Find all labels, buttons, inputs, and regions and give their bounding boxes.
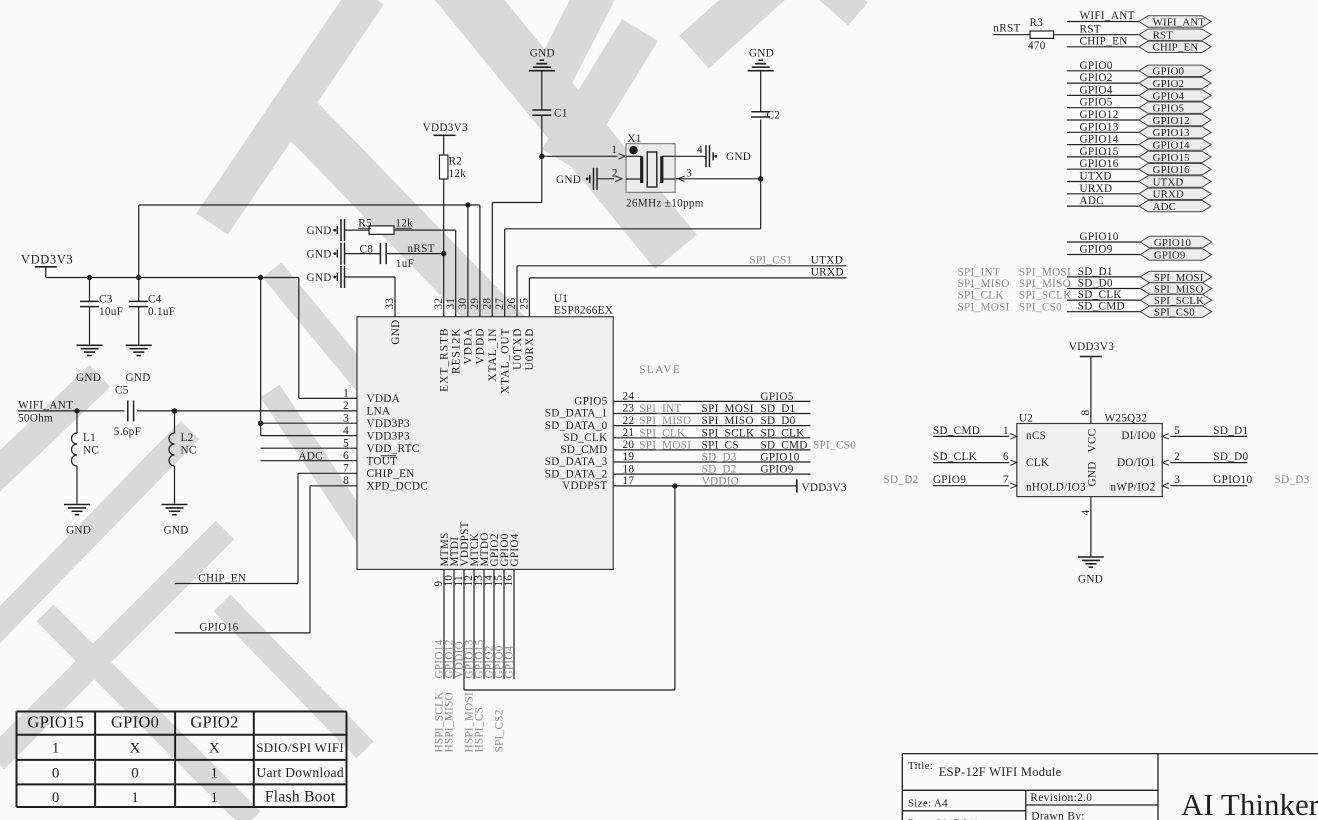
svg-text:WIFI_ANT: WIFI_ANT (18, 400, 73, 412)
svg-text:U2: U2 (1019, 413, 1033, 425)
svg-text:GND: GND (307, 272, 332, 284)
svg-text:GPIO15: GPIO15 (27, 713, 84, 732)
svg-text:GND: GND (390, 320, 402, 345)
svg-text:GPIO4: GPIO4 (1153, 90, 1185, 102)
svg-text:GPIO14: GPIO14 (1153, 140, 1191, 152)
svg-text:4: 4 (1080, 510, 1092, 516)
svg-text:2: 2 (1174, 451, 1180, 463)
svg-text:SPI_MISO: SPI_MISO (702, 415, 754, 427)
svg-text:SD_D0: SD_D0 (761, 415, 796, 427)
svg-text:XTAL_OUT: XTAL_OUT (500, 328, 512, 395)
svg-text:Drawn By:: Drawn By: (1031, 811, 1084, 820)
svg-text:R2: R2 (449, 156, 463, 168)
svg-text:1: 1 (52, 740, 60, 756)
svg-text:CHIP_EN: CHIP_EN (1153, 42, 1199, 54)
svg-text:VDD3V3: VDD3V3 (423, 122, 468, 134)
svg-text:SLAVE: SLAVE (639, 364, 681, 376)
svg-text:VDD3V3: VDD3V3 (1069, 341, 1114, 353)
svg-text:6: 6 (1003, 451, 1009, 463)
svg-text:X: X (209, 740, 220, 756)
svg-text:SD_D0: SD_D0 (1078, 278, 1113, 290)
svg-text:SPI_MOSI: SPI_MOSI (958, 301, 1010, 313)
svg-text:UTXD: UTXD (1153, 176, 1184, 188)
svg-text:RST: RST (1153, 30, 1174, 42)
svg-text:GPIO5: GPIO5 (1153, 103, 1185, 115)
svg-text:SPI_SCLK: SPI_SCLK (1154, 295, 1204, 307)
svg-text:26MHz ±10ppm: 26MHz ±10ppm (626, 198, 704, 210)
svg-text:GND: GND (164, 525, 189, 537)
svg-text:DO/IO1: DO/IO1 (1117, 457, 1155, 469)
svg-text:TOUT: TOUT (367, 456, 398, 468)
svg-text:VDD_RTC: VDD_RTC (367, 443, 420, 455)
svg-text:SD_D2: SD_D2 (702, 464, 737, 476)
svg-text:DI/IO0: DI/IO0 (1121, 430, 1155, 442)
svg-text:VCC: VCC (1087, 429, 1099, 453)
svg-text:SPI_SCLK: SPI_SCLK (1019, 290, 1072, 302)
svg-text:URXD: URXD (811, 267, 844, 279)
svg-text:XTAL_IN: XTAL_IN (487, 327, 499, 381)
svg-text:GPIO9: GPIO9 (933, 474, 966, 486)
svg-text:GPIO2: GPIO2 (1080, 72, 1113, 84)
svg-text:Uart Download: Uart Download (256, 765, 344, 780)
svg-text:1: 1 (211, 765, 219, 781)
svg-text:Title:: Title: (908, 760, 933, 772)
svg-text:GPIO16: GPIO16 (1153, 164, 1191, 176)
svg-text:GPIO5: GPIO5 (1080, 97, 1113, 109)
svg-text:SD_CMD: SD_CMD (933, 425, 980, 437)
svg-text:SD_D2: SD_D2 (884, 474, 919, 486)
svg-text:SPI_INT: SPI_INT (639, 403, 682, 415)
svg-text:SD_CLK: SD_CLK (1078, 289, 1122, 301)
svg-text:RES12K: RES12K (451, 328, 463, 375)
svg-text:SPI_CS0: SPI_CS0 (1154, 307, 1195, 319)
svg-text:GPIO5: GPIO5 (574, 396, 607, 408)
svg-text:GPIO16: GPIO16 (1080, 158, 1119, 170)
svg-text:GPIO10: GPIO10 (761, 452, 800, 464)
svg-text:GND: GND (307, 225, 332, 237)
svg-text:GPIO10: GPIO10 (1154, 237, 1191, 249)
svg-text:GPIO10: GPIO10 (1213, 474, 1252, 486)
svg-text:GND: GND (1078, 574, 1103, 586)
svg-text:GPIO0: GPIO0 (1080, 60, 1113, 72)
svg-text:GND: GND (749, 47, 774, 59)
svg-text:C5: C5 (115, 385, 129, 397)
svg-text:SPI_MOSI: SPI_MOSI (639, 440, 691, 452)
svg-text:GPIO10: GPIO10 (1080, 231, 1119, 243)
svg-text:C2: C2 (767, 109, 781, 121)
svg-text:1: 1 (211, 790, 219, 806)
svg-text:10uF: 10uF (99, 306, 123, 318)
svg-text:SPI_MOSI: SPI_MOSI (702, 403, 754, 415)
svg-text:SD_D0: SD_D0 (1213, 451, 1248, 463)
svg-text:SD_CLK: SD_CLK (761, 427, 805, 439)
svg-text:SPI_INT: SPI_INT (958, 267, 1001, 279)
svg-text:SPI_CS0: SPI_CS0 (813, 440, 856, 452)
svg-text:1: 1 (611, 144, 617, 156)
svg-text:UTXD: UTXD (811, 255, 843, 267)
svg-text:nCS: nCS (1026, 430, 1046, 442)
svg-text:SPI_MISO: SPI_MISO (958, 278, 1010, 290)
svg-text:LNA: LNA (367, 406, 391, 418)
svg-text:C8: C8 (360, 243, 374, 255)
svg-text:SD_D1: SD_D1 (1078, 266, 1113, 278)
svg-text:ESP-12F WIFI Module: ESP-12F WIFI Module (939, 765, 1062, 779)
svg-text:5.6pF: 5.6pF (114, 426, 141, 438)
svg-text:SD_D1: SD_D1 (761, 403, 796, 415)
svg-text:SD_CLK: SD_CLK (563, 432, 607, 444)
svg-text:HSPI_MISO: HSPI_MISO (444, 692, 456, 753)
svg-text:C4: C4 (148, 294, 162, 306)
svg-text:GND: GND (126, 372, 151, 384)
svg-text:GPIO0: GPIO0 (111, 713, 159, 732)
svg-text:SD_D3: SD_D3 (1275, 474, 1310, 486)
svg-text:0: 0 (52, 790, 60, 806)
svg-text:CHIP_EN: CHIP_EN (198, 572, 246, 584)
svg-text:CHIP_EN: CHIP_EN (367, 468, 415, 480)
svg-text:0.1uF: 0.1uF (148, 306, 175, 318)
svg-text:SPI_CLK: SPI_CLK (958, 290, 1004, 302)
svg-text:SD_DATA_1: SD_DATA_1 (545, 408, 608, 420)
svg-text:VDDA: VDDA (367, 393, 401, 405)
svg-text:AI Thinker: AI Thinker (1181, 787, 1318, 820)
svg-text:L2: L2 (181, 432, 194, 444)
svg-text:GPIO12: GPIO12 (1080, 109, 1119, 121)
svg-text:NC: NC (83, 445, 99, 457)
svg-text:GPIO14: GPIO14 (1080, 134, 1119, 146)
svg-text:3: 3 (1174, 474, 1180, 486)
svg-text:GPIO4: GPIO4 (509, 533, 521, 566)
svg-text:C3: C3 (99, 294, 113, 306)
svg-text:WIFI_ANT: WIFI_ANT (1153, 16, 1206, 28)
svg-text:SD_CMD: SD_CMD (761, 440, 808, 452)
svg-text:Size: A4: Size: A4 (908, 798, 948, 810)
svg-text:VDD3V3: VDD3V3 (21, 253, 73, 267)
svg-text:1: 1 (131, 790, 139, 806)
svg-text:25: 25 (519, 298, 531, 310)
svg-text:SPI_MISO: SPI_MISO (1154, 283, 1204, 295)
svg-text:VDDA: VDDA (463, 328, 475, 365)
svg-text:GPIO9: GPIO9 (1080, 244, 1113, 256)
svg-text:1uF: 1uF (396, 258, 414, 270)
svg-text:RST: RST (1080, 23, 1101, 35)
svg-text:CHIP_EN: CHIP_EN (1080, 36, 1128, 48)
svg-text:U0RXD: U0RXD (524, 328, 536, 371)
svg-text:CLK: CLK (1026, 457, 1049, 469)
svg-text:SD_D3: SD_D3 (702, 452, 737, 464)
svg-text:4: 4 (697, 144, 703, 156)
svg-text:12k: 12k (449, 168, 467, 180)
svg-text:ADC: ADC (1153, 201, 1176, 213)
svg-text:7: 7 (1003, 474, 1009, 486)
svg-text:W25Q32: W25Q32 (1105, 413, 1148, 425)
svg-text:GPIO15: GPIO15 (1153, 152, 1190, 164)
svg-text:0: 0 (131, 765, 139, 781)
svg-text:SD_CMD: SD_CMD (560, 444, 607, 456)
svg-text:SPI_CLK: SPI_CLK (639, 427, 685, 439)
svg-text:ADC: ADC (298, 450, 323, 462)
svg-text:VDD3V3: VDD3V3 (802, 482, 847, 494)
svg-text:SPI_MISO: SPI_MISO (1019, 278, 1071, 290)
svg-text:VDDIO: VDDIO (702, 476, 740, 488)
svg-text:ESP8266EX: ESP8266EX (554, 305, 613, 317)
svg-text:SD_DATA_0: SD_DATA_0 (545, 420, 608, 432)
svg-text:HSPI_CS: HSPI_CS (474, 707, 486, 753)
svg-text:GND: GND (66, 525, 91, 537)
svg-text:nRST: nRST (993, 23, 1020, 35)
svg-text:5: 5 (1174, 425, 1180, 437)
svg-text:SDIO/SPI WIFI: SDIO/SPI WIFI (256, 740, 344, 755)
svg-text:L1: L1 (83, 432, 96, 444)
svg-text:R3: R3 (1030, 17, 1044, 29)
svg-text:VDD3P3: VDD3P3 (367, 418, 411, 430)
svg-text:GPIO15: GPIO15 (1080, 146, 1119, 158)
svg-text:GND: GND (76, 372, 101, 384)
svg-text:URXD: URXD (1153, 189, 1184, 201)
svg-text:1: 1 (1003, 425, 1009, 437)
svg-text:2: 2 (612, 168, 618, 180)
svg-text:VDD3P3: VDD3P3 (367, 430, 411, 442)
svg-text:SPI_CS0: SPI_CS0 (1019, 301, 1062, 313)
svg-text:GND: GND (307, 249, 332, 261)
svg-text:SPI_MOSI: SPI_MOSI (1154, 272, 1204, 284)
svg-text:470: 470 (1028, 40, 1046, 52)
svg-text:Flash Boot: Flash Boot (265, 788, 336, 805)
svg-text:GPIO5: GPIO5 (761, 391, 794, 403)
svg-text:WIFI_ANT: WIFI_ANT (1080, 10, 1135, 22)
svg-text:X1: X1 (627, 133, 641, 145)
svg-text:SPI_MISO: SPI_MISO (639, 415, 691, 427)
svg-text:X: X (130, 740, 141, 756)
svg-text:SD_DATA_3: SD_DATA_3 (545, 456, 608, 468)
svg-text:GPIO2: GPIO2 (190, 713, 238, 732)
svg-text:50Ohm: 50Ohm (18, 413, 53, 425)
svg-text:GPIO9: GPIO9 (1154, 249, 1186, 261)
svg-text:0: 0 (52, 765, 60, 781)
svg-text:VDDD: VDDD (475, 328, 487, 365)
svg-text:U1: U1 (554, 293, 568, 305)
svg-text:SD_DATA_2: SD_DATA_2 (545, 468, 608, 480)
svg-text:U0TXD: U0TXD (512, 328, 524, 370)
svg-text:GPIO12: GPIO12 (1153, 115, 1190, 127)
svg-text:R5: R5 (358, 218, 372, 230)
svg-text:XPD_DCDC: XPD_DCDC (367, 481, 428, 493)
svg-text:GND: GND (530, 47, 555, 59)
svg-text:SD_CMD: SD_CMD (1078, 301, 1125, 313)
svg-text:GPIO0: GPIO0 (1153, 66, 1185, 78)
svg-text:SPI_CS2: SPI_CS2 (494, 709, 506, 752)
svg-text:GPIO16: GPIO16 (199, 622, 238, 634)
svg-text:NC: NC (181, 445, 197, 457)
svg-text:Revision:2.0: Revision:2.0 (1030, 792, 1092, 804)
svg-text:SPI_CS1: SPI_CS1 (749, 255, 792, 267)
svg-text:C1: C1 (554, 108, 568, 120)
svg-text:nRST: nRST (408, 243, 435, 255)
svg-text:nWP/IO2: nWP/IO2 (1111, 482, 1156, 494)
svg-text:8: 8 (1080, 410, 1092, 416)
svg-text:GPIO13: GPIO13 (1153, 127, 1190, 139)
svg-text:GPIO2: GPIO2 (1153, 78, 1185, 90)
svg-text:UTXD: UTXD (1080, 171, 1112, 183)
svg-text:GPIO9: GPIO9 (761, 464, 794, 476)
svg-text:nHOLD/IO3: nHOLD/IO3 (1026, 482, 1086, 494)
svg-text:SPI_MOSI: SPI_MOSI (1019, 267, 1071, 279)
svg-text:EXT_RSTB: EXT_RSTB (439, 328, 451, 392)
svg-text:GND: GND (726, 151, 751, 163)
svg-text:GND: GND (1087, 461, 1099, 486)
svg-text:GPIO13: GPIO13 (1080, 121, 1119, 133)
svg-text:VDDPST: VDDPST (562, 480, 607, 492)
svg-text:GPIO4: GPIO4 (504, 645, 516, 678)
svg-text:URXD: URXD (1080, 183, 1113, 195)
svg-text:SPI_SCLK: SPI_SCLK (702, 427, 755, 439)
svg-text:SD_D1: SD_D1 (1213, 425, 1248, 437)
svg-text:SD_CLK: SD_CLK (933, 451, 977, 463)
svg-text:GND: GND (556, 174, 581, 186)
svg-text:SPI_CS: SPI_CS (702, 440, 739, 452)
svg-text:3: 3 (686, 168, 692, 180)
svg-text:GPIO4: GPIO4 (1080, 84, 1113, 96)
svg-text:ADC: ADC (1080, 195, 1105, 207)
svg-text:12k: 12k (395, 218, 413, 230)
